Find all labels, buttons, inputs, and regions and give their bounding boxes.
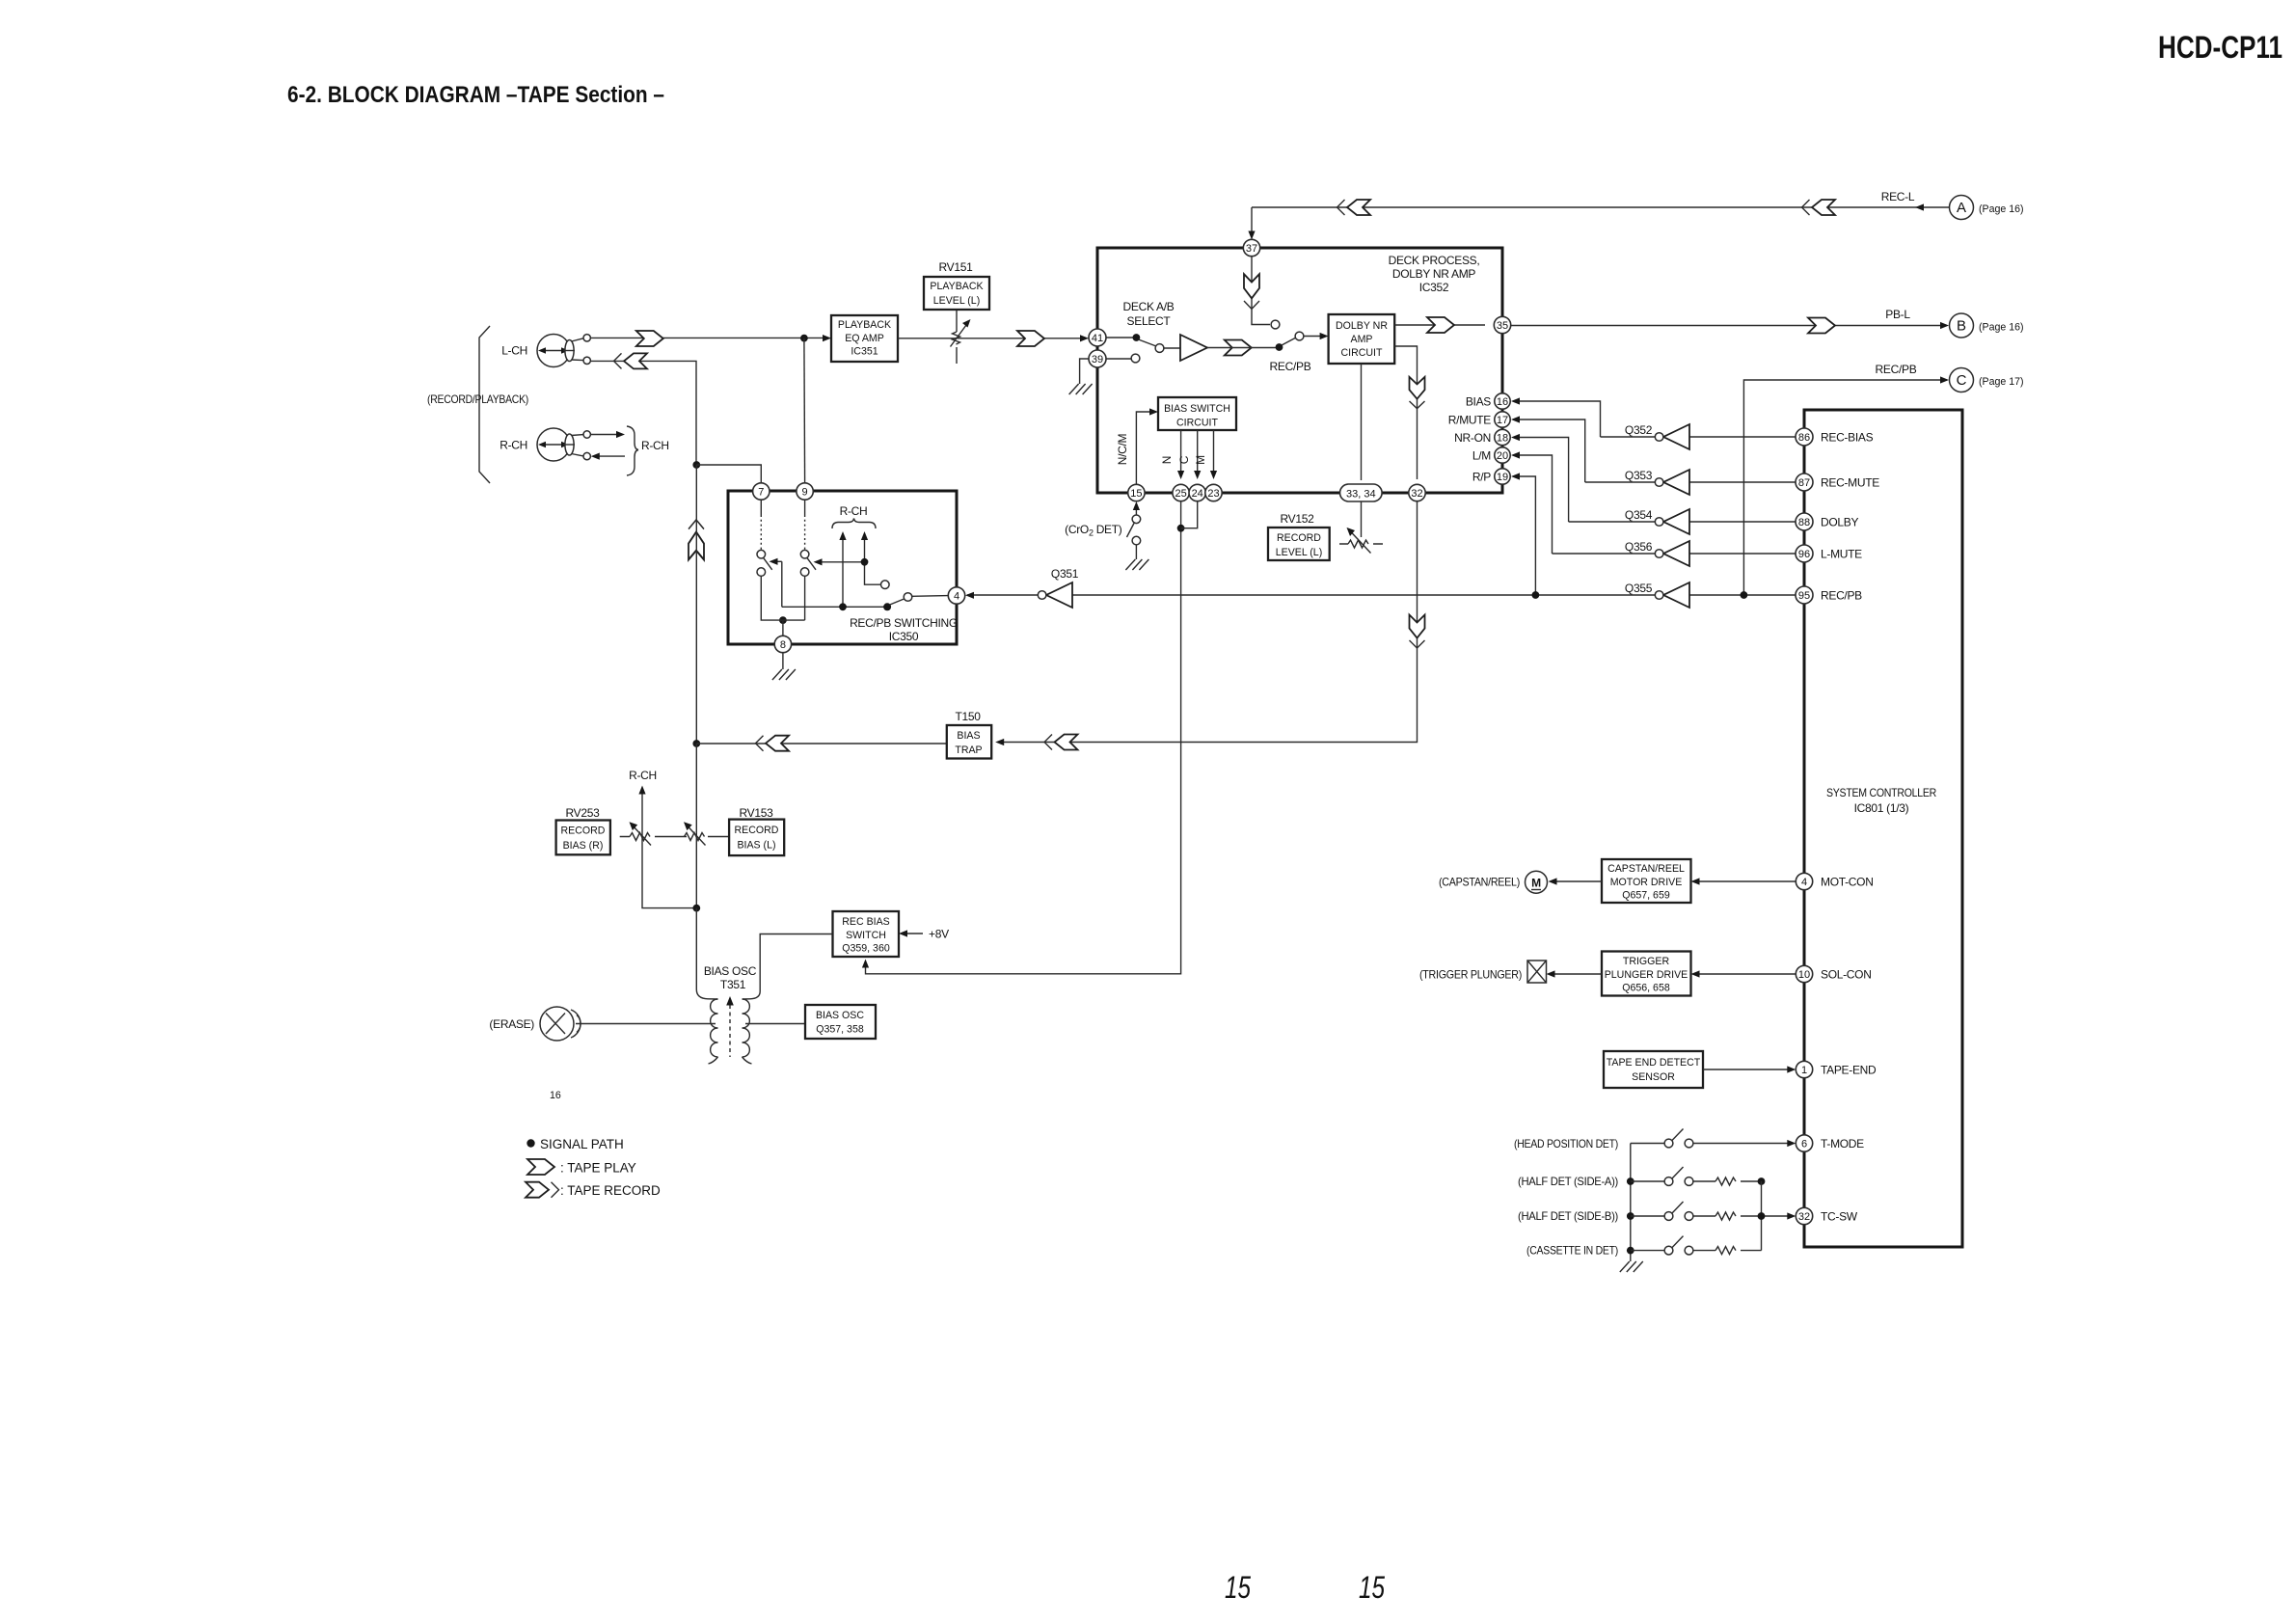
svg-text:R-CH: R-CH xyxy=(840,504,868,518)
brace over R-CH outputs xyxy=(832,519,876,529)
svg-text:Q359, 360: Q359, 360 xyxy=(842,943,890,955)
wires bias switch outputs N C M down to pins 25 24 23 xyxy=(1181,430,1214,474)
svg-text:7: 7 xyxy=(758,487,764,499)
node REC/PB branch xyxy=(1741,591,1748,599)
svg-text:9: 9 xyxy=(802,487,808,499)
svg-text:SENSOR: SENSOR xyxy=(1632,1071,1675,1083)
IC block IC352 DECK PROCESS, DOLBY NR AMP xyxy=(1097,248,1502,493)
svg-text:(ERASE): (ERASE) xyxy=(489,1017,534,1031)
wire REC BIAS SWITCH to transformer secondary top xyxy=(743,934,833,1000)
pin 32 TC-SW xyxy=(1796,1207,1812,1224)
svg-text:(RECORD/PLAYBACK): (RECORD/PLAYBACK) xyxy=(427,392,528,406)
tape record chevron down to pin 32 xyxy=(1410,377,1425,409)
pin 86 REC-BIAS xyxy=(1796,428,1813,446)
wire sensor to pin 1 xyxy=(1703,1069,1791,1070)
legend signal path xyxy=(527,1139,534,1147)
wire Q355 output long line to Q351 xyxy=(1072,594,1655,596)
wire REC BIAS SWITCH control from pin 25 line xyxy=(866,501,1181,974)
svg-text:16: 16 xyxy=(550,1090,561,1101)
ground below pin 8 xyxy=(772,669,796,680)
pin 17 R/MUTE xyxy=(1495,412,1510,427)
wire dolby amp to pin 35 xyxy=(1394,324,1485,326)
svg-text:33, 34: 33, 34 xyxy=(1346,489,1376,501)
svg-text:(HALF DET (SIDE-B)): (HALF DET (SIDE-B)) xyxy=(1518,1209,1618,1223)
wire R-CH playback stub with arrow xyxy=(590,434,618,436)
wire into pin 17 xyxy=(1516,420,1585,482)
label box PLAYBACK LEVEL (L) xyxy=(924,277,989,310)
switch CrO2 DET xyxy=(1127,515,1141,559)
wire pin37 down to play switch contact xyxy=(1252,257,1270,325)
node control branch xyxy=(861,558,869,566)
rec/pb switch arm and contact xyxy=(1282,338,1296,345)
svg-text:L-MUTE: L-MUTE xyxy=(1821,548,1862,561)
label box RECORD BIAS (L) xyxy=(729,820,784,856)
svg-text:95: 95 xyxy=(1798,590,1810,602)
svg-text:R-CH: R-CH xyxy=(500,439,527,452)
IC block IC350 REC/PB SWITCHING xyxy=(728,491,957,644)
wire junction column xyxy=(1761,1181,1763,1251)
ground below CrO2 switch xyxy=(1125,559,1148,570)
svg-text:MOTOR DRIVE: MOTOR DRIVE xyxy=(1610,877,1683,888)
label box RECORD BIAS (R) xyxy=(556,821,610,855)
svg-text:RECORD: RECORD xyxy=(561,826,606,837)
svg-text:39: 39 xyxy=(1092,354,1103,365)
svg-text:BIAS OSC: BIAS OSC xyxy=(704,964,757,978)
pin 24 xyxy=(1189,484,1205,501)
legend tape record xyxy=(526,1182,559,1198)
svg-text:: TAPE RECORD: : TAPE RECORD xyxy=(560,1183,661,1198)
svg-text:L-CH: L-CH xyxy=(501,344,527,358)
potentiometer RV152 xyxy=(1339,528,1383,554)
wire CrO2 det below pin 15 xyxy=(1135,505,1137,515)
svg-text:SOL-CON: SOL-CON xyxy=(1821,968,1872,982)
svg-text:RECORD: RECORD xyxy=(735,825,779,836)
wire transformer secondary to bias osc xyxy=(745,1023,805,1025)
svg-text:Q355: Q355 xyxy=(1625,582,1653,595)
svg-text:REC/PB: REC/PB xyxy=(1270,360,1311,373)
svg-text:R/P: R/P xyxy=(1472,471,1491,484)
wire pin 24 branch xyxy=(1181,501,1198,528)
wire L-CH record input xyxy=(590,361,696,462)
arrow into playback EQ amp xyxy=(823,335,831,341)
svg-text:CAPSTAN/REEL: CAPSTAN/REEL xyxy=(1607,863,1685,875)
svg-text:BIAS OSC: BIAS OSC xyxy=(816,1010,864,1021)
svg-text:SWITCH: SWITCH xyxy=(846,930,886,941)
svg-text:Q353: Q353 xyxy=(1625,469,1653,482)
arrow into pin 41 xyxy=(1080,335,1089,341)
potentiometer RV151 xyxy=(951,310,971,364)
transistor Q351 inverter xyxy=(1038,567,1078,608)
transistor Q353 inverter xyxy=(1625,469,1689,495)
svg-text:BIAS: BIAS xyxy=(1466,395,1491,409)
node on common at arrow1 xyxy=(839,603,847,610)
tape record chevron down from pin 37 xyxy=(1244,274,1259,309)
svg-text:24: 24 xyxy=(1192,488,1203,500)
svg-text:RV152: RV152 xyxy=(1281,512,1315,526)
svg-text:RV153: RV153 xyxy=(740,806,774,820)
wire pin 87 to Q353 xyxy=(1689,481,1796,483)
wire pin 88 to Q354 xyxy=(1689,521,1796,523)
svg-text:DECK A/B: DECK A/B xyxy=(1123,300,1175,313)
svg-text:1: 1 xyxy=(1801,1065,1807,1076)
svg-text:R/MUTE: R/MUTE xyxy=(1448,414,1491,427)
wire horizontal common inside IC350 xyxy=(782,561,887,607)
node at switch commons xyxy=(779,616,787,624)
svg-text:IC352: IC352 xyxy=(1419,281,1449,294)
node: record line junction to IC350 pin7 xyxy=(692,461,700,469)
svg-text:(CASSETTE IN DET): (CASSETTE IN DET) xyxy=(1526,1244,1618,1258)
head assembly bracket xyxy=(479,326,490,483)
wire Q353 output xyxy=(1585,481,1656,483)
tape record chevron down on pin32 drop xyxy=(1410,615,1425,649)
wire record line down to bias trap junction xyxy=(695,465,697,744)
pin 8 xyxy=(774,636,791,652)
wire commons joined xyxy=(779,619,805,621)
svg-text:REC-BIAS: REC-BIAS xyxy=(1821,431,1874,445)
svg-text:19: 19 xyxy=(1497,472,1508,483)
svg-text:4: 4 xyxy=(1801,877,1807,888)
svg-text:BIAS SWITCH: BIAS SWITCH xyxy=(1164,403,1230,415)
tape play chevron to pin 35 xyxy=(1427,317,1454,333)
node playback line to pin 9 xyxy=(800,335,808,342)
svg-text:8: 8 xyxy=(780,639,786,651)
svg-text:20: 20 xyxy=(1497,450,1508,462)
driver block Q359,360 REC BIAS SWITCH xyxy=(833,911,900,957)
wire into pin 20 xyxy=(1516,455,1553,554)
svg-text:EQ AMP: EQ AMP xyxy=(845,333,884,344)
svg-text:(Page 16): (Page 16) xyxy=(1979,322,2024,334)
svg-text:TAPE-END: TAPE-END xyxy=(1821,1064,1877,1077)
svg-text:15: 15 xyxy=(1225,1570,1251,1605)
pin 87 REC-MUTE xyxy=(1796,474,1813,491)
svg-text:BIAS (L): BIAS (L) xyxy=(737,840,775,852)
wire control poke at left switch xyxy=(772,560,782,562)
svg-text:PLUNGER DRIVE: PLUNGER DRIVE xyxy=(1605,969,1688,981)
pin 37 xyxy=(1243,239,1259,256)
tape record chevron pointing up on record line xyxy=(689,520,704,559)
wire RV253 wiper up arrow xyxy=(641,791,643,837)
svg-text:15: 15 xyxy=(1359,1570,1385,1605)
svg-text:(TRIGGER PLUNGER): (TRIGGER PLUNGER) xyxy=(1419,968,1522,982)
svg-text:TRAP: TRAP xyxy=(955,744,982,756)
pin 96 L-MUTE xyxy=(1796,545,1813,562)
tape play chevron on PB-L xyxy=(1808,318,1835,334)
wire record line to transformer primary xyxy=(696,908,717,999)
wire pin 39 to ground xyxy=(1080,359,1089,384)
ground at pin 39 xyxy=(1069,384,1093,394)
wire PB-L to connector B xyxy=(1511,325,1947,327)
svg-text:16: 16 xyxy=(1497,396,1508,408)
pin 9 xyxy=(797,483,813,500)
pin 4 MOT-CON xyxy=(1796,873,1812,889)
svg-text:IC801 (1/3): IC801 (1/3) xyxy=(1854,801,1909,815)
svg-text:RV253: RV253 xyxy=(566,806,601,820)
svg-text:86: 86 xyxy=(1798,432,1810,444)
svg-text:RECORD: RECORD xyxy=(1277,532,1321,544)
svg-text:TRIGGER: TRIGGER xyxy=(1623,956,1670,967)
svg-text:(HEAD POSITION DET): (HEAD POSITION DET) xyxy=(1514,1137,1618,1150)
transistor Q355 inverter xyxy=(1625,582,1689,608)
svg-text:REC-MUTE: REC-MUTE xyxy=(1821,476,1879,490)
rec/play head L-CH xyxy=(537,335,590,367)
wire from node down to IC350 pin 9 xyxy=(803,338,806,482)
svg-text:T-MODE: T-MODE xyxy=(1821,1137,1864,1150)
svg-text:23: 23 xyxy=(1207,488,1219,500)
transistor Q356 inverter xyxy=(1625,540,1689,566)
pin 4 xyxy=(948,587,964,604)
pin 32 xyxy=(1409,484,1425,501)
pin 6 T-MODE xyxy=(1796,1135,1812,1151)
svg-text:REC/PB SWITCHING: REC/PB SWITCHING xyxy=(850,616,958,630)
connector B (Page 16) xyxy=(1950,313,2024,338)
pin 88 DOLBY xyxy=(1796,513,1813,530)
amp block DOLBY NR AMP CIRCUIT xyxy=(1329,314,1395,364)
pin 35 xyxy=(1494,316,1510,333)
svg-text:25: 25 xyxy=(1175,488,1186,500)
svg-text:REC/PB: REC/PB xyxy=(1876,363,1917,376)
transistor Q352 inverter xyxy=(1625,423,1689,449)
wire pin 86 to Q352 xyxy=(1689,436,1796,438)
wire REC/PB branch to connector C xyxy=(1743,380,1947,595)
transistor Q354 inverter xyxy=(1625,508,1689,534)
arrow into connector B xyxy=(1940,322,1949,329)
IC block BIAS SWITCH CIRCUIT xyxy=(1158,397,1236,430)
svg-text:REC/PB: REC/PB xyxy=(1821,589,1862,603)
pin 95 REC/PB xyxy=(1796,586,1813,604)
svg-text:96: 96 xyxy=(1798,549,1810,560)
svg-text:AMP: AMP xyxy=(1351,334,1373,345)
wire bias trap input from pin 32 xyxy=(998,501,1418,743)
svg-text:18: 18 xyxy=(1497,433,1508,445)
sensor block TAPE END DETECT SENSOR xyxy=(1604,1051,1703,1088)
svg-text:L/M: L/M xyxy=(1472,449,1491,463)
wire pin 95 to Q355 xyxy=(1689,594,1796,596)
svg-text:IC350: IC350 xyxy=(889,630,919,643)
wire pin 10 to plunger drive xyxy=(1695,973,1796,975)
wire record line down through RV153 xyxy=(695,744,697,908)
svg-text:DOLBY NR: DOLBY NR xyxy=(1336,320,1388,332)
tape play chevron before pin 41 xyxy=(1017,331,1044,346)
node R/P branch xyxy=(1532,591,1540,599)
svg-text:IC351: IC351 xyxy=(851,346,878,358)
svg-text:B: B xyxy=(1957,318,1966,335)
svg-text:C: C xyxy=(1957,372,1967,389)
svg-text:T351: T351 xyxy=(720,978,746,991)
svg-text:CIRCUIT: CIRCUIT xyxy=(1176,418,1218,429)
wire R-CH output arrow 2 xyxy=(865,535,881,584)
svg-text:A: A xyxy=(1957,200,1966,216)
svg-text:BIAS (R): BIAS (R) xyxy=(563,840,604,852)
wire motor drive to motor xyxy=(1553,880,1602,882)
node at RV junction xyxy=(692,905,700,912)
svg-text:10: 10 xyxy=(1798,969,1810,981)
svg-text:SYSTEM CONTROLLER: SYSTEM CONTROLLER xyxy=(1826,786,1937,799)
svg-text:DOLBY NR AMP: DOLBY NR AMP xyxy=(1392,267,1476,281)
tape record chevron on REC-L wire near A xyxy=(1802,200,1836,215)
svg-text:32: 32 xyxy=(1411,488,1422,500)
wire pin 8 to ground xyxy=(782,653,784,669)
arrow on REC-L wire pointing left xyxy=(1915,203,1924,210)
svg-text:PLAYBACK: PLAYBACK xyxy=(838,319,891,331)
svg-text:Q352: Q352 xyxy=(1625,423,1653,437)
svg-text:41: 41 xyxy=(1092,333,1103,344)
switch cassette in det xyxy=(1627,1236,1762,1255)
switch IC350 right section xyxy=(800,500,816,620)
wire common to pin 8 xyxy=(782,620,784,636)
IC block IC801 SYSTEM CONTROLLER xyxy=(1804,410,1962,1247)
wire dolby amp right side to pin 32 xyxy=(1394,346,1417,479)
svg-text:6: 6 xyxy=(1801,1139,1807,1150)
svg-text:DOLBY: DOLBY xyxy=(1821,516,1858,529)
pin 20 L/M xyxy=(1495,447,1510,463)
wire dolby amp bottom to pins 33,34 xyxy=(1361,364,1363,480)
svg-text:(HALF DET (SIDE-A)): (HALF DET (SIDE-A)) xyxy=(1518,1175,1618,1188)
pin 1 TAPE-END xyxy=(1796,1061,1812,1077)
svg-text:+8V: +8V xyxy=(929,928,949,941)
potentiometer RV153 xyxy=(677,822,729,845)
motor M capstan/reel xyxy=(1526,871,1548,893)
svg-text:T150: T150 xyxy=(956,710,982,723)
switch head position det xyxy=(1631,1129,1796,1148)
deck A/B switch at pin 41 xyxy=(1106,334,1180,352)
contact circle of deck A/B play path xyxy=(1271,320,1280,329)
pin 23 xyxy=(1205,484,1222,501)
svg-text:N: N xyxy=(1160,456,1174,464)
wire control poke at right switch xyxy=(817,561,863,563)
svg-text:(Page 17): (Page 17) xyxy=(1979,376,2024,388)
filter block T150 BIAS TRAP xyxy=(947,725,991,759)
switch IC350 left section xyxy=(757,500,779,620)
svg-text:35: 35 xyxy=(1497,320,1508,332)
switch half det side B xyxy=(1627,1202,1766,1220)
wire into pin 19 xyxy=(1516,476,1535,595)
wire left bus of detect switches xyxy=(1630,1144,1632,1251)
svg-text:(CAPSTAN/REEL): (CAPSTAN/REEL) xyxy=(1439,876,1520,889)
wire L-CH playback output xyxy=(590,337,824,338)
svg-text:32: 32 xyxy=(1798,1211,1810,1223)
pin 10 SOL-CON xyxy=(1796,965,1812,982)
svg-text:BIAS: BIAS xyxy=(957,730,980,742)
driver block Q657,659 CAPSTAN/REEL MOTOR DRIVE xyxy=(1602,859,1691,903)
svg-text:REC-L: REC-L xyxy=(1881,190,1915,203)
svg-text:Q351: Q351 xyxy=(1051,567,1079,581)
wire into pin 32 TC-SW xyxy=(1762,1215,1791,1217)
svg-text:6-2. BLOCK DIAGRAM –TAPE Sect: 6-2. BLOCK DIAGRAM –TAPE Section – xyxy=(287,82,664,108)
transformer T351 xyxy=(709,996,752,1064)
svg-text:87: 87 xyxy=(1798,477,1810,489)
wire R-CH output arrow 1 xyxy=(842,535,844,607)
svg-text:NR-ON: NR-ON xyxy=(1454,431,1491,445)
node REC/PB switch common xyxy=(1276,343,1283,351)
node pin 24 joins pin 25 line xyxy=(1177,525,1185,532)
switch half det side A xyxy=(1627,1167,1766,1185)
svg-text:LEVEL (L): LEVEL (L) xyxy=(1276,547,1322,558)
svg-text:REC BIAS: REC BIAS xyxy=(842,916,889,928)
wire into pin 16 xyxy=(1516,401,1601,437)
svg-text:15: 15 xyxy=(1130,488,1142,500)
svg-text:SELECT: SELECT xyxy=(1127,314,1172,328)
brace for R-CH pair xyxy=(627,426,638,475)
pin 7 xyxy=(753,483,770,500)
svg-text:: TAPE PLAY: : TAPE PLAY xyxy=(560,1161,636,1176)
tape record chevron on L record wire (pointing left) xyxy=(614,353,648,368)
wire Q356 output xyxy=(1553,553,1656,555)
wire RV253 branch to record line xyxy=(642,837,696,908)
tape record chevron on bias trap right wire xyxy=(1044,735,1078,750)
op-amp block IC351 PLAYBACK EQ AMP xyxy=(831,315,898,362)
potentiometer RV253 xyxy=(620,822,677,845)
svg-text:DECK PROCESS,: DECK PROCESS, xyxy=(1389,254,1480,267)
osc block Q357,358 BIAS OSC xyxy=(805,1005,876,1039)
svg-text:N/C/M: N/C/M xyxy=(1116,433,1129,465)
svg-text:Q356: Q356 xyxy=(1625,540,1653,554)
trigger plunger symbol xyxy=(1527,961,1547,983)
svg-text:Q656, 658: Q656, 658 xyxy=(1622,983,1670,994)
svg-text:MOT-CON: MOT-CON xyxy=(1821,876,1874,889)
svg-text:PLAYBACK: PLAYBACK xyxy=(930,281,983,292)
svg-text:PB-L: PB-L xyxy=(1885,308,1910,321)
pin 18 NR-ON xyxy=(1495,429,1510,445)
wire bias trap output left xyxy=(696,743,947,744)
wire plunger drive to plunger xyxy=(1551,973,1602,975)
pin 39 stub contact xyxy=(1106,354,1140,363)
svg-text:R-CH: R-CH xyxy=(641,439,669,452)
wire Q352 output xyxy=(1601,436,1656,438)
svg-text:88: 88 xyxy=(1798,517,1810,528)
svg-text:C: C xyxy=(1177,455,1191,464)
svg-text:4: 4 xyxy=(954,591,959,603)
wire R-CH record stub with arrow xyxy=(596,455,625,457)
node record line at bias trap xyxy=(692,740,700,747)
wire Q351 output to IC350 pin 4 xyxy=(967,594,1038,596)
svg-text:HCD-CP11: HCD-CP11 xyxy=(2158,30,2282,65)
svg-text:Q357, 358: Q357, 358 xyxy=(816,1024,864,1036)
driver block Q656,658 TRIGGER PLUNGER DRIVE xyxy=(1602,952,1691,996)
buffer amp in deck A/B select xyxy=(1180,335,1207,361)
wire pins 33,34 down to RV152 xyxy=(1361,501,1363,537)
tape play chevron after buffer xyxy=(1225,340,1252,356)
svg-text:M: M xyxy=(1531,877,1541,890)
svg-text:(Page 16): (Page 16) xyxy=(1979,203,2024,215)
svg-text:TC-SW: TC-SW xyxy=(1821,1210,1858,1224)
svg-text:17: 17 xyxy=(1497,415,1508,426)
svg-text:R-CH: R-CH xyxy=(629,769,657,782)
wire pin 96 to Q356 xyxy=(1689,553,1796,555)
label box RECORD LEVEL (L) xyxy=(1268,528,1330,560)
svg-text:M: M xyxy=(1194,455,1207,465)
svg-text:LEVEL (L): LEVEL (L) xyxy=(933,295,980,307)
wire pin 15 up to bias switch circuit xyxy=(1136,412,1151,484)
connector C (Page 17) xyxy=(1950,368,2024,392)
wire buffer to rec/pb switch xyxy=(1207,347,1277,349)
wire REC-L from connector A to pin 37 xyxy=(1252,207,1949,236)
svg-text:37: 37 xyxy=(1246,243,1257,255)
rec/play head R-CH xyxy=(537,428,590,461)
tape record chevron on bias trap left wire xyxy=(756,736,790,751)
pin 33,34 stadium xyxy=(1340,484,1383,501)
wire pin 4 to motor drive xyxy=(1695,880,1796,882)
svg-text:Q657, 659: Q657, 659 xyxy=(1622,890,1670,902)
contact circle right of R-CH arrow2 xyxy=(881,581,890,589)
legend tape play xyxy=(527,1159,554,1175)
wire erase head to transformer xyxy=(576,1023,716,1025)
pin 25 xyxy=(1173,484,1189,501)
svg-text:TAPE END DETECT: TAPE END DETECT xyxy=(1607,1057,1701,1069)
ground of detect switches xyxy=(1620,1261,1643,1272)
pin 15 xyxy=(1128,484,1145,501)
tape play chevron on L playback wire xyxy=(636,331,663,346)
wire EQ amp to pin 41 xyxy=(898,338,1082,339)
